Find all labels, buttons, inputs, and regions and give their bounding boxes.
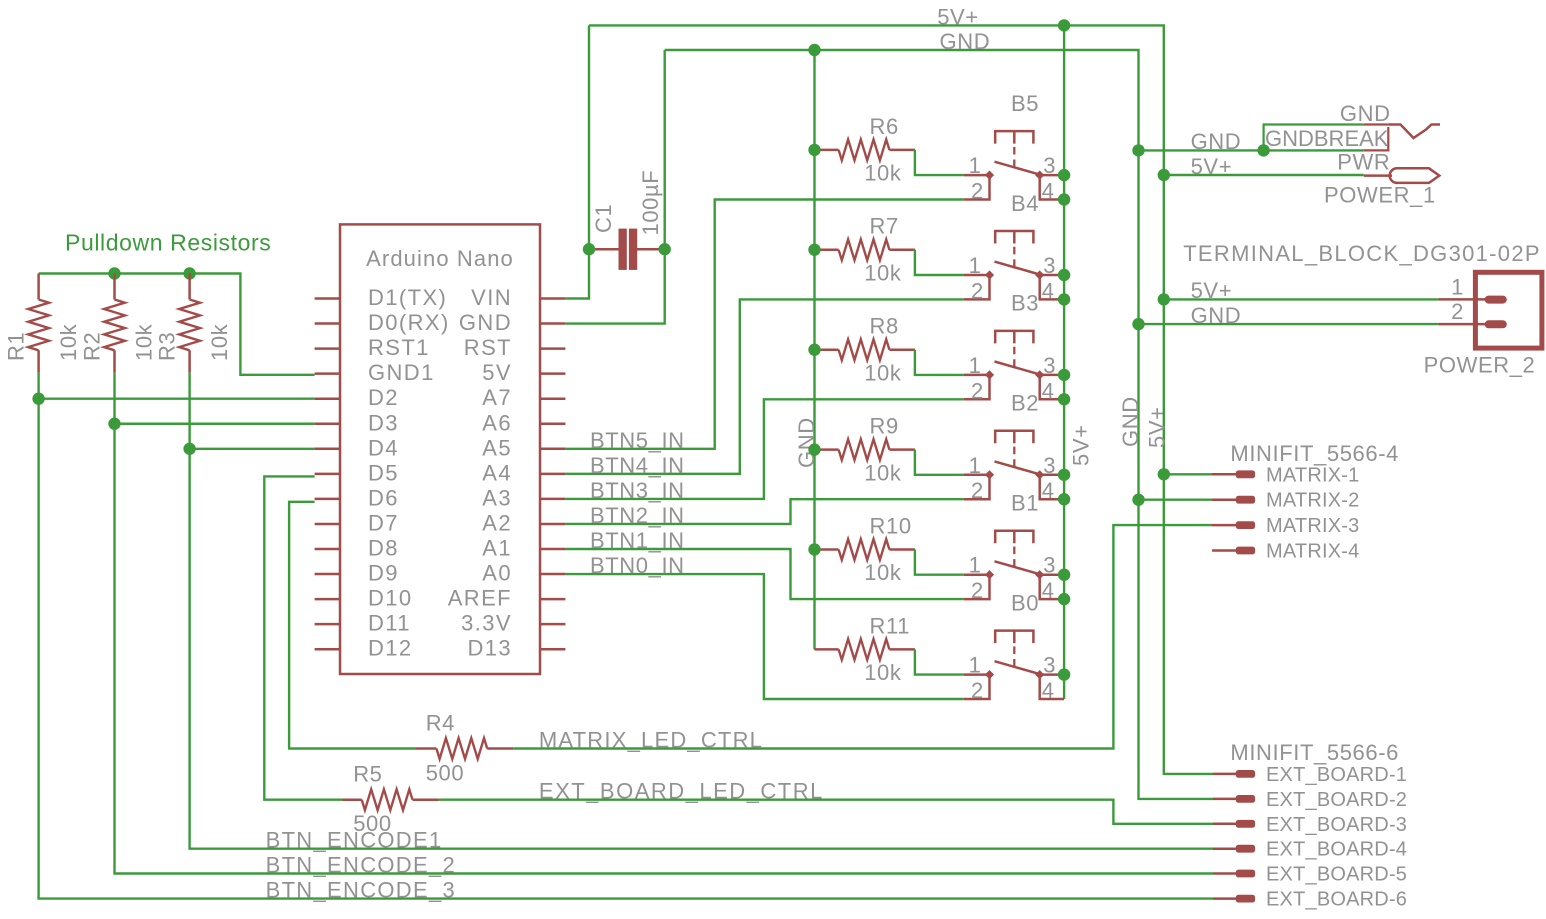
pin GND1 stub xyxy=(315,372,340,375)
svg-text:MATRIX-3: MATRIX-3 xyxy=(1266,515,1359,537)
pin A5 stub xyxy=(540,448,565,451)
junction 5V+ bus / PWR xyxy=(1158,169,1170,181)
switch B2 pin 2 xyxy=(964,475,990,499)
wire button-column GND bus xyxy=(813,50,815,649)
wire GND down to C1 right and Arduino GND xyxy=(565,50,664,324)
junction R3 top xyxy=(183,267,195,279)
svg-text:R1: R1 xyxy=(3,332,28,361)
pin 5V stub xyxy=(540,372,565,375)
resistor R1 10k xyxy=(37,274,40,373)
switch B3 actuator dashed link xyxy=(1013,347,1015,368)
svg-text:GND: GND xyxy=(1191,129,1242,154)
resistor R6 10k xyxy=(815,149,915,152)
svg-text:PWR: PWR xyxy=(1337,150,1390,175)
svg-text:D2: D2 xyxy=(368,385,399,410)
wire R1 bottom down to BTN_ENCODE row xyxy=(39,373,1213,899)
wire 5V+ down to C1 left and VIN xyxy=(565,25,589,298)
svg-text:A1: A1 xyxy=(482,536,512,561)
svg-text:1: 1 xyxy=(969,353,982,378)
IC U1 Arduino Nano body xyxy=(340,224,540,674)
resistor R7 zigzag xyxy=(839,239,890,260)
switch B3 pin 2 xyxy=(964,375,990,399)
svg-text:4: 4 xyxy=(1042,678,1055,703)
svg-text:B2: B2 xyxy=(1011,391,1039,416)
svg-text:Arduino Nano: Arduino Nano xyxy=(366,246,514,271)
switch B0 pin 2 xyxy=(964,675,990,699)
junction B3 pin 4 on 5V+ bus xyxy=(1058,393,1070,405)
svg-text:C1: C1 xyxy=(591,204,616,233)
junction GND bus / MATRIX-2 xyxy=(1132,494,1144,506)
svg-text:R4: R4 xyxy=(426,711,455,736)
svg-text:B0: B0 xyxy=(1011,590,1039,615)
MINIFIT_5566-4 pin MATRIX-1 stub xyxy=(1212,473,1236,476)
svg-text:GND: GND xyxy=(1118,396,1143,447)
resistor R10 zigzag xyxy=(839,539,890,560)
svg-text:5V+: 5V+ xyxy=(1068,424,1093,466)
svg-text:MATRIX-2: MATRIX-2 xyxy=(1266,490,1359,512)
svg-text:4: 4 xyxy=(1042,478,1055,503)
svg-text:A4: A4 xyxy=(482,460,512,485)
switch B0 pin 1 xyxy=(964,673,990,676)
svg-text:TERMINAL_BLOCK_DG301-02P: TERMINAL_BLOCK_DG301-02P xyxy=(1183,241,1541,266)
svg-text:5V+: 5V+ xyxy=(1191,278,1233,303)
connector POWER_2 terminal block body xyxy=(1475,272,1542,348)
junction R9 on GND bus xyxy=(808,443,820,455)
svg-text:EXT_BOARD-3: EXT_BOARD-3 xyxy=(1266,814,1407,836)
MINIFIT_5566-4 pin MATRIX-2 stub xyxy=(1212,498,1236,501)
svg-text:10k: 10k xyxy=(864,660,902,685)
junction B5 pin 3 on 5V+ bus xyxy=(1058,169,1070,181)
pin D9 stub xyxy=(315,573,340,576)
svg-text:D5: D5 xyxy=(368,460,399,485)
junction R7 on GND bus xyxy=(808,244,820,256)
junction B1 pin 4 on 5V+ bus xyxy=(1058,593,1070,605)
junction R8 on GND bus xyxy=(808,344,820,356)
pin D4 stub xyxy=(315,448,340,451)
resistor R9 zigzag xyxy=(839,439,890,460)
switch B5 button cap xyxy=(995,131,1033,144)
pin D7 stub xyxy=(315,523,340,526)
svg-text:EXT_BOARD-1: EXT_BOARD-1 xyxy=(1266,764,1407,786)
svg-text:AREF: AREF xyxy=(448,586,512,611)
break symbol POWER_1 GND pin xyxy=(1388,125,1440,139)
svg-text:10k: 10k xyxy=(864,360,902,385)
svg-text:500: 500 xyxy=(426,760,465,785)
junction B4 pin 3 on 5V+ bus xyxy=(1058,269,1070,281)
resistor R6 zigzag xyxy=(839,140,890,161)
wire R6 to B5 pin 1 xyxy=(915,150,964,175)
junction B1 pin 3 on 5V+ bus xyxy=(1058,569,1070,581)
svg-text:1: 1 xyxy=(969,553,982,578)
MINIFIT_5566-6 pin EXT_BOARD-5 stub xyxy=(1213,872,1236,875)
junction C1 right xyxy=(659,243,671,255)
pin D1(TX) stub xyxy=(315,297,340,300)
svg-text:R9: R9 xyxy=(870,414,899,439)
svg-text:EXT_BOARD-2: EXT_BOARD-2 xyxy=(1266,789,1407,811)
svg-text:D4: D4 xyxy=(368,435,399,460)
wire BTN4_IN net from A4 to B4 pin 2 xyxy=(565,299,964,473)
svg-text:VIN: VIN xyxy=(471,285,512,310)
MINIFIT_5566-6 pin EXT_BOARD-4 stub xyxy=(1213,847,1236,850)
resistor R10 10k xyxy=(815,548,915,551)
switch B4 pin 2 xyxy=(964,275,990,299)
pin D3 stub xyxy=(315,423,340,426)
junction B0 pin 3 on 5V+ bus xyxy=(1058,668,1070,680)
pin D0(RX) stub xyxy=(315,322,340,325)
svg-text:10k: 10k xyxy=(56,323,81,361)
switch B5 lever xyxy=(995,162,1040,175)
junction B4 pin 4 on 5V+ bus xyxy=(1058,293,1070,305)
svg-text:D13: D13 xyxy=(467,636,512,661)
resistor R4 500 xyxy=(415,747,513,750)
junction GNDBREAK frame xyxy=(1257,144,1269,156)
svg-text:BTN3_IN: BTN3_IN xyxy=(590,478,685,503)
switch B3 pin 3 xyxy=(1040,374,1064,377)
wire button-column 5V+ bus xyxy=(1063,25,1065,699)
svg-text:1: 1 xyxy=(969,653,982,678)
wire R2 bottom to Arduino pin xyxy=(115,423,315,425)
svg-text:10k: 10k xyxy=(132,323,157,361)
pin RST1 stub xyxy=(315,347,340,350)
svg-text:3: 3 xyxy=(1043,653,1056,678)
svg-text:A5: A5 xyxy=(482,435,512,460)
svg-text:4: 4 xyxy=(1042,578,1055,603)
svg-text:EXT_BOARD_LED_CTRL: EXT_BOARD_LED_CTRL xyxy=(539,779,824,804)
PWR plug symbol POWER_1 xyxy=(1364,174,1392,177)
junction R1 bottom xyxy=(32,393,44,405)
svg-text:MATRIX_LED_CTRL: MATRIX_LED_CTRL xyxy=(539,728,763,753)
svg-text:D3: D3 xyxy=(368,410,399,435)
svg-text:1: 1 xyxy=(1451,275,1464,300)
svg-text:GND: GND xyxy=(459,310,512,335)
switch B5 pin 3 xyxy=(1040,174,1064,177)
svg-text:A0: A0 xyxy=(482,561,512,586)
svg-text:1: 1 xyxy=(969,153,982,178)
switch B1 pin 2 xyxy=(964,575,990,599)
wire R3 bottom to Arduino pin xyxy=(190,448,315,450)
switch B1 lever xyxy=(995,561,1040,574)
pin D2 stub xyxy=(315,397,340,400)
svg-text:5V: 5V xyxy=(482,360,512,385)
junction R6 on GND bus xyxy=(808,144,820,156)
svg-text:R5: R5 xyxy=(353,762,382,787)
switch B3 pin 4 xyxy=(1040,375,1064,399)
wire BTN2_IN net from A2 to B2 pin 2 xyxy=(565,499,964,524)
wire R7 to B4 pin 1 xyxy=(915,250,964,275)
wire BTN5_IN net from A5 to B5 pin 2 xyxy=(565,200,964,449)
switch B4 pin 1 xyxy=(964,274,990,277)
svg-text:10k: 10k xyxy=(864,560,902,585)
GNDBREAK xref frame xyxy=(1264,125,1364,151)
MINIFIT_5566-6 pin EXT_BOARD-1 stub xyxy=(1213,773,1236,776)
svg-text:B3: B3 xyxy=(1011,291,1039,316)
svg-text:10k: 10k xyxy=(207,323,232,361)
resistor R11 10k xyxy=(815,648,915,651)
svg-text:R8: R8 xyxy=(870,314,899,339)
wire BTN3_IN net from A3 to B3 pin 2 xyxy=(565,399,964,499)
MINIFIT_5566-6 pin EXT_BOARD-6 stub xyxy=(1213,897,1236,900)
wire D5 to R5 (EXT_BOARD_LED_CTRL) xyxy=(264,476,342,799)
svg-text:BTN5_IN: BTN5_IN xyxy=(590,428,685,453)
svg-text:2: 2 xyxy=(971,278,984,303)
pin A0 stub xyxy=(540,573,565,576)
MINIFIT_5566-4 pin MATRIX-3 stub xyxy=(1212,524,1236,527)
svg-text:B4: B4 xyxy=(1011,191,1039,216)
svg-text:EXT_BOARD-6: EXT_BOARD-6 xyxy=(1266,889,1407,911)
svg-text:BTN4_IN: BTN4_IN xyxy=(590,453,685,478)
junction GND bus / GNDBREAK xyxy=(1132,144,1144,156)
switch B1 pin 3 xyxy=(1040,573,1064,576)
svg-text:3.3V: 3.3V xyxy=(461,611,512,636)
POWER_2 pin 2 lead xyxy=(1438,323,1487,326)
pin D6 stub xyxy=(315,498,340,501)
pin D8 stub xyxy=(315,548,340,551)
switch B0 button cap xyxy=(995,631,1033,644)
switch B1 pin 4 xyxy=(1040,575,1064,599)
resistor R3 zigzag xyxy=(179,300,200,351)
svg-text:R2: R2 xyxy=(79,332,104,361)
wire 5V+ to MATRIX-1 xyxy=(1164,473,1212,475)
svg-text:2: 2 xyxy=(971,678,984,703)
svg-text:3: 3 xyxy=(1043,153,1056,178)
resistor R4 zigzag xyxy=(436,738,487,759)
resistor R3 10k xyxy=(188,274,191,373)
svg-text:D10: D10 xyxy=(368,586,413,611)
junction GND rail / button GND bus xyxy=(808,44,820,56)
svg-text:D7: D7 xyxy=(368,510,399,535)
junction C1 left xyxy=(583,243,595,255)
svg-text:10k: 10k xyxy=(864,161,902,186)
svg-text:D6: D6 xyxy=(368,485,399,510)
svg-text:GNDBREAK: GNDBREAK xyxy=(1265,126,1389,151)
switch B0 lever xyxy=(995,661,1040,674)
svg-text:BTN_ENCODE_3: BTN_ENCODE_3 xyxy=(266,878,456,903)
svg-text:3: 3 xyxy=(1043,253,1056,278)
svg-text:GND: GND xyxy=(940,29,991,54)
svg-text:4: 4 xyxy=(1042,179,1055,204)
wire R1 bottom to Arduino pin xyxy=(39,398,315,400)
pin A3 stub xyxy=(540,498,565,501)
pin A6 stub xyxy=(540,423,565,426)
svg-text:1: 1 xyxy=(969,253,982,278)
POWER_2 pad 1 xyxy=(1485,296,1507,304)
pin A2 stub xyxy=(540,523,565,526)
junction R3 bottom xyxy=(183,443,195,455)
pin D13 stub xyxy=(540,648,565,651)
switch B0 actuator dashed link xyxy=(1013,646,1015,667)
resistor R5 500 xyxy=(343,798,439,801)
svg-text:GND1: GND1 xyxy=(368,360,435,385)
switch B4 pin 3 xyxy=(1040,274,1064,277)
svg-text:BTN2_IN: BTN2_IN xyxy=(590,503,685,528)
switch B4 actuator dashed link xyxy=(1013,247,1015,268)
svg-text:A3: A3 xyxy=(482,485,512,510)
svg-text:RST1: RST1 xyxy=(368,335,430,360)
wire 5V+ to PWR xyxy=(1164,174,1364,176)
wire BTN1_IN net from A1 to B1 pin 2 xyxy=(565,549,964,599)
POWER_2 pad 2 xyxy=(1485,320,1507,328)
pin AREF stub xyxy=(540,598,565,601)
pin A4 stub xyxy=(540,473,565,476)
svg-text:B1: B1 xyxy=(1011,491,1039,516)
pin VIN stub xyxy=(540,297,565,300)
svg-text:R10: R10 xyxy=(870,513,912,538)
junction 5V+ bus / MATRIX-1 xyxy=(1158,468,1170,480)
svg-text:A2: A2 xyxy=(482,510,512,535)
wire R8 to B3 pin 1 xyxy=(915,350,964,375)
junction 5V+ bus / POWER_2.1 xyxy=(1158,293,1170,305)
svg-text:BTN1_IN: BTN1_IN xyxy=(590,528,685,553)
switch B2 pin 3 xyxy=(1040,474,1064,477)
pin D12 stub xyxy=(315,648,340,651)
switch B1 pin 1 xyxy=(964,573,990,576)
switch B0 pin 4 xyxy=(1040,675,1064,699)
svg-text:4: 4 xyxy=(1042,278,1055,303)
svg-text:3: 3 xyxy=(1043,553,1056,578)
switch B5 pin 2 xyxy=(964,175,990,199)
svg-text:MINIFIT_5566-4: MINIFIT_5566-4 xyxy=(1230,441,1399,466)
pin GND stub xyxy=(540,322,565,325)
wire R1/R2/R3 tops to GND1 xyxy=(39,274,315,375)
svg-text:BTN0_IN: BTN0_IN xyxy=(590,553,685,578)
pin RST stub xyxy=(540,347,565,350)
switch B5 pin 4 xyxy=(1040,175,1064,199)
pin A7 stub xyxy=(540,397,565,400)
svg-text:5V+: 5V+ xyxy=(1191,154,1233,179)
resistor R8 zigzag xyxy=(839,339,890,360)
pin D11 stub xyxy=(315,623,340,626)
switch B1 actuator dashed link xyxy=(1013,547,1015,568)
switch B4 pin 4 xyxy=(1040,275,1064,299)
svg-text:POWER_1: POWER_1 xyxy=(1324,183,1436,208)
svg-text:10k: 10k xyxy=(864,460,902,485)
svg-text:1: 1 xyxy=(969,453,982,478)
wire EXT_BOARD_LED_CTRL to EXT_BOARD-3 xyxy=(439,800,1213,824)
svg-text:Pulldown Resistors: Pulldown Resistors xyxy=(65,230,271,256)
switch B0 pin 3 xyxy=(1040,673,1064,676)
svg-text:4: 4 xyxy=(1042,378,1055,403)
switch B2 button cap xyxy=(995,431,1033,444)
svg-text:2: 2 xyxy=(971,179,984,204)
svg-text:R11: R11 xyxy=(870,613,911,638)
wire 5V+ top rail and right 5V+ bus down to EXT_BOARD-1 xyxy=(589,25,1213,774)
svg-text:2: 2 xyxy=(971,578,984,603)
svg-text:BTN_ENCODE_2: BTN_ENCODE_2 xyxy=(266,853,456,878)
switch B3 button cap xyxy=(995,331,1033,344)
svg-text:A7: A7 xyxy=(482,385,512,410)
svg-text:MINIFIT_5566-6: MINIFIT_5566-6 xyxy=(1230,740,1399,765)
svg-text:GND: GND xyxy=(794,417,819,468)
switch B3 lever xyxy=(995,362,1040,375)
wire GND to POWER_2 pin 2 xyxy=(1139,323,1439,325)
resistor R2 10k xyxy=(113,274,116,373)
wire GND to MATRIX-2 xyxy=(1139,499,1213,501)
svg-text:5V+: 5V+ xyxy=(1144,406,1169,448)
resistor R1 zigzag xyxy=(28,300,49,351)
junction R2 top xyxy=(108,267,120,279)
svg-text:5V+: 5V+ xyxy=(937,5,979,30)
switch B3 pin 1 xyxy=(964,374,990,377)
svg-text:MATRIX-1: MATRIX-1 xyxy=(1266,464,1359,486)
svg-text:D8: D8 xyxy=(368,536,399,561)
svg-text:EXT_BOARD-5: EXT_BOARD-5 xyxy=(1266,864,1407,886)
svg-text:3: 3 xyxy=(1043,453,1056,478)
svg-text:2: 2 xyxy=(971,478,984,503)
switch B1 button cap xyxy=(995,531,1033,544)
resistor R11 zigzag xyxy=(839,639,890,660)
svg-text:GND: GND xyxy=(1340,101,1391,126)
resistor R7 10k xyxy=(815,249,915,252)
svg-text:D12: D12 xyxy=(368,636,413,661)
switch B2 actuator dashed link xyxy=(1013,447,1015,468)
svg-text:500: 500 xyxy=(353,811,392,836)
capacitor C1 xyxy=(589,248,665,251)
junction B5 pin 4 on 5V+ bus xyxy=(1058,193,1070,205)
resistor R9 10k xyxy=(815,448,915,451)
svg-text:100µF: 100µF xyxy=(638,170,663,236)
svg-text:R7: R7 xyxy=(870,214,899,239)
pin A1 stub xyxy=(540,548,565,551)
svg-text:MATRIX-4: MATRIX-4 xyxy=(1266,541,1359,563)
wire R2 bottom down to BTN_ENCODE row xyxy=(115,373,1214,874)
MINIFIT_5566-6 pin EXT_BOARD-2 stub xyxy=(1213,798,1236,801)
switch B4 lever xyxy=(995,262,1040,275)
junction GND bus / POWER_2.2 xyxy=(1132,318,1144,330)
wire GND to GNDBREAK xyxy=(1139,149,1364,151)
switch B2 pin 1 xyxy=(964,474,990,477)
svg-text:POWER_2: POWER_2 xyxy=(1424,353,1536,378)
svg-text:RST: RST xyxy=(464,335,512,360)
svg-text:R6: R6 xyxy=(870,114,899,139)
svg-text:2: 2 xyxy=(1451,299,1464,324)
wire D6 to R4 (MATRIX_LED_CTRL) xyxy=(289,502,415,749)
switch B2 lever xyxy=(995,461,1040,474)
resistor R8 10k xyxy=(815,348,915,351)
wire 5V+ to POWER_2 pin 1 xyxy=(1164,298,1439,300)
svg-text:3: 3 xyxy=(1043,353,1056,378)
junction B2 pin 3 on 5V+ bus xyxy=(1058,469,1070,481)
resistor R2 zigzag xyxy=(104,300,125,351)
junction R10 on GND bus xyxy=(808,543,820,555)
switch B5 pin 1 xyxy=(964,174,990,177)
junction R2 bottom xyxy=(108,418,120,430)
wire R3 bottom down to BTN_ENCODE row xyxy=(190,373,1213,849)
svg-text:EXT_BOARD-4: EXT_BOARD-4 xyxy=(1266,839,1407,861)
wire R9 to B2 pin 1 xyxy=(915,450,964,475)
pin D10 stub xyxy=(315,598,340,601)
wire R11 to B0 pin 1 xyxy=(915,649,964,674)
pin 3.3V stub xyxy=(540,623,565,626)
svg-text:R3: R3 xyxy=(154,332,179,361)
svg-text:2: 2 xyxy=(971,378,984,403)
wire GND top rail and right GND bus down to EXT_BOARD-2 xyxy=(665,50,1213,799)
svg-text:D0(RX): D0(RX) xyxy=(368,310,450,335)
MINIFIT_5566-4 pin MATRIX-4 stub xyxy=(1212,549,1236,552)
junction B3 pin 3 on 5V+ bus xyxy=(1058,369,1070,381)
svg-text:A6: A6 xyxy=(482,410,512,435)
wire BTN0_IN net from A0 to B0 pin 2 xyxy=(565,574,964,699)
MINIFIT_5566-6 pin EXT_BOARD-3 stub xyxy=(1213,823,1236,826)
wire MATRIX_LED_CTRL to MATRIX-3 xyxy=(513,525,1212,748)
switch B2 pin 4 xyxy=(1040,475,1064,499)
junction B2 pin 4 on 5V+ bus xyxy=(1058,493,1070,505)
resistor R5 zigzag xyxy=(362,789,413,810)
POWER_2 pin 1 lead xyxy=(1438,298,1487,301)
svg-text:GND: GND xyxy=(1191,303,1242,328)
switch B5 actuator dashed link xyxy=(1013,147,1015,168)
switch B4 button cap xyxy=(995,231,1033,244)
junction 5V+ rail / button bus xyxy=(1058,19,1070,31)
